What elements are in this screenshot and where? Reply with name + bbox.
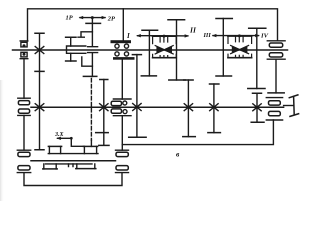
svg-text:2Р: 2Р: [107, 15, 115, 22]
svg-text:III: III: [203, 32, 212, 39]
shift fork upper: [78, 32, 92, 37]
gear G1 mesh cross on shaft II: [35, 104, 44, 111]
shaft III (left box): [31, 160, 116, 162]
svg-text:II: II: [189, 26, 197, 35]
clutch cluster on shaft II: [111, 99, 131, 116]
gear F on shaft II: [213, 84, 215, 133]
svg-text:I: I: [126, 32, 130, 40]
gear C on shaft I: [222, 19, 224, 77]
arrow to I: [138, 35, 164, 37]
arrow to IV: [240, 35, 259, 37]
shift fork lower: [82, 57, 93, 66]
friction clutch M2: [228, 34, 252, 57]
gear G1 caps: [35, 33, 44, 150]
gear G2 on shaft II: [103, 80, 105, 146]
bearing B4 on shaft II right end: [266, 98, 282, 120]
bottom frame left box: [24, 173, 122, 186]
svg-text:в: в: [176, 150, 180, 159]
gear K hanging right: [275, 59, 277, 93]
mid column verticals: [121, 60, 123, 151]
reverse block on shaft III: [43, 145, 109, 169]
friction clutch M1: [153, 35, 177, 58]
arrow to III: [213, 35, 240, 37]
gear D on shaft I: [256, 28, 258, 88]
sliding block hub on shaft I: [67, 46, 86, 53]
svg-text:1Р: 1Р: [66, 14, 73, 21]
gear A on shaft I: [148, 30, 150, 76]
coupling C2 on shaft III left end: [17, 150, 30, 172]
gear G1 vertical: [39, 33, 41, 150]
arrow to II: [163, 35, 187, 37]
shaft I: [13, 49, 288, 51]
frame divider vertical: [122, 9, 124, 40]
gear G3 on shaft II: [136, 55, 138, 138]
output coupling symbol: [284, 95, 299, 117]
frame top border: [28, 9, 278, 41]
dashed shift linkage: [90, 79, 92, 141]
bearing B1 on shaft I left: [20, 41, 28, 59]
gear E on shaft II: [187, 80, 189, 137]
coupling C3 on shaft III right end: [116, 150, 129, 172]
gear G1 mesh cross on shaft I: [35, 47, 44, 54]
svg-text:IV: IV: [260, 33, 269, 40]
reverse shift arrow: [56, 137, 84, 147]
gear S2 large: [91, 23, 93, 76]
gear H on shaft II: [256, 93, 258, 122]
shift arrow 1P-2P: [79, 16, 107, 24]
svg-text:З.Х: З.Х: [54, 132, 65, 138]
gear S1 small: [70, 37, 72, 61]
left column shaft vertical: [23, 59, 25, 150]
bearing B3 on shaft I right end: [267, 41, 285, 59]
shaft II: [31, 106, 284, 108]
coupling C1 on shaft II left end: [18, 98, 30, 115]
gear B on shaft I: [176, 20, 178, 80]
scan edge artifact: [0, 80, 4, 201]
bottom frame right box: [122, 120, 273, 145]
bearing B2 rolling on shaft I (frame mount): [111, 40, 135, 59]
